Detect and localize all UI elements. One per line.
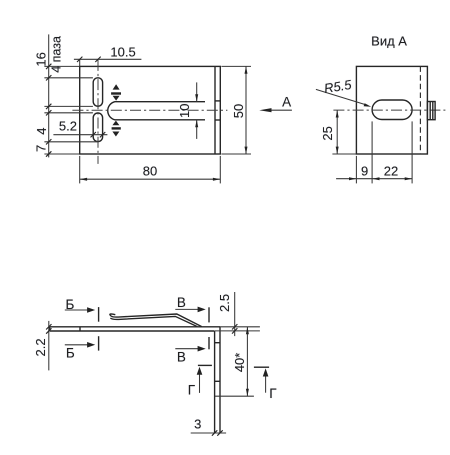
svg-text:7: 7 [34,145,49,152]
dim chain left: extension lines [44,65,79,67]
dim 10 (slot height) [196,82,198,101]
svg-text:Вид А: Вид А [371,34,407,49]
centerline horizontal [72,109,227,111]
svg-text:3: 3 [194,417,201,432]
svg-text:Г: Г [188,382,196,397]
svg-text:50: 50 [231,104,246,118]
lower slot (obround) [93,113,102,142]
svg-text:5.2: 5.2 [59,119,77,134]
vertical flange edge view [215,327,220,433]
centerline vertical through slots [97,60,99,164]
spring clip [110,314,202,327]
obround hole [372,100,412,120]
section Г left [198,364,212,366]
svg-text:R5.5: R5.5 [323,77,353,96]
svg-text:22: 22 [384,164,398,179]
svg-text:2.2: 2.2 [33,338,48,356]
tab edges in plan [215,100,220,102]
dim 5.2 [53,134,107,136]
central slot [108,102,205,120]
svg-text:2.5: 2.5 [217,294,232,312]
svg-text:9: 9 [361,164,368,179]
R5.5 leader [316,89,368,105]
dim 50 (right) [221,65,251,67]
plate outline [80,66,221,154]
flange outline [356,66,427,154]
svg-text:Б: Б [66,346,75,361]
dim chain left: dimension line [48,34,50,157]
dim 2.2 [48,321,50,371]
svg-text:4: 4 [34,127,49,134]
svg-text:80: 80 [143,164,157,179]
svg-text:25: 25 [320,126,335,140]
svg-text:В: В [177,295,186,310]
svg-text:10.5: 10.5 [110,45,135,60]
plate edge view [50,327,220,331]
svg-text:16: 16 [33,52,48,66]
svg-text:10: 10 [177,103,192,117]
dim 40* [215,395,254,397]
hidden bend line [419,66,421,154]
section Г right [254,366,269,368]
press-direction symbol lower [112,121,121,137]
dim 25 [336,110,338,154]
dim 80 (bottom) [79,156,81,184]
svg-text:В: В [177,350,186,365]
dims 9 and 22 [355,156,357,184]
svg-text:Г: Г [269,386,277,401]
ticks [46,64,51,69]
svg-text:А: А [282,94,291,109]
dim 2.5 [220,326,260,328]
centerline [333,109,445,111]
dim 3 [191,432,226,434]
svg-text:4 паза: 4 паза [49,36,63,73]
dim 10.5 [79,59,81,66]
side tab [427,102,435,120]
view-direction arrow A [268,109,292,111]
svg-text:40*: 40* [232,353,247,373]
bend line (inner vertical) [214,66,216,154]
upper slot (obround) [93,78,102,106]
press-direction symbol upper [111,84,121,100]
